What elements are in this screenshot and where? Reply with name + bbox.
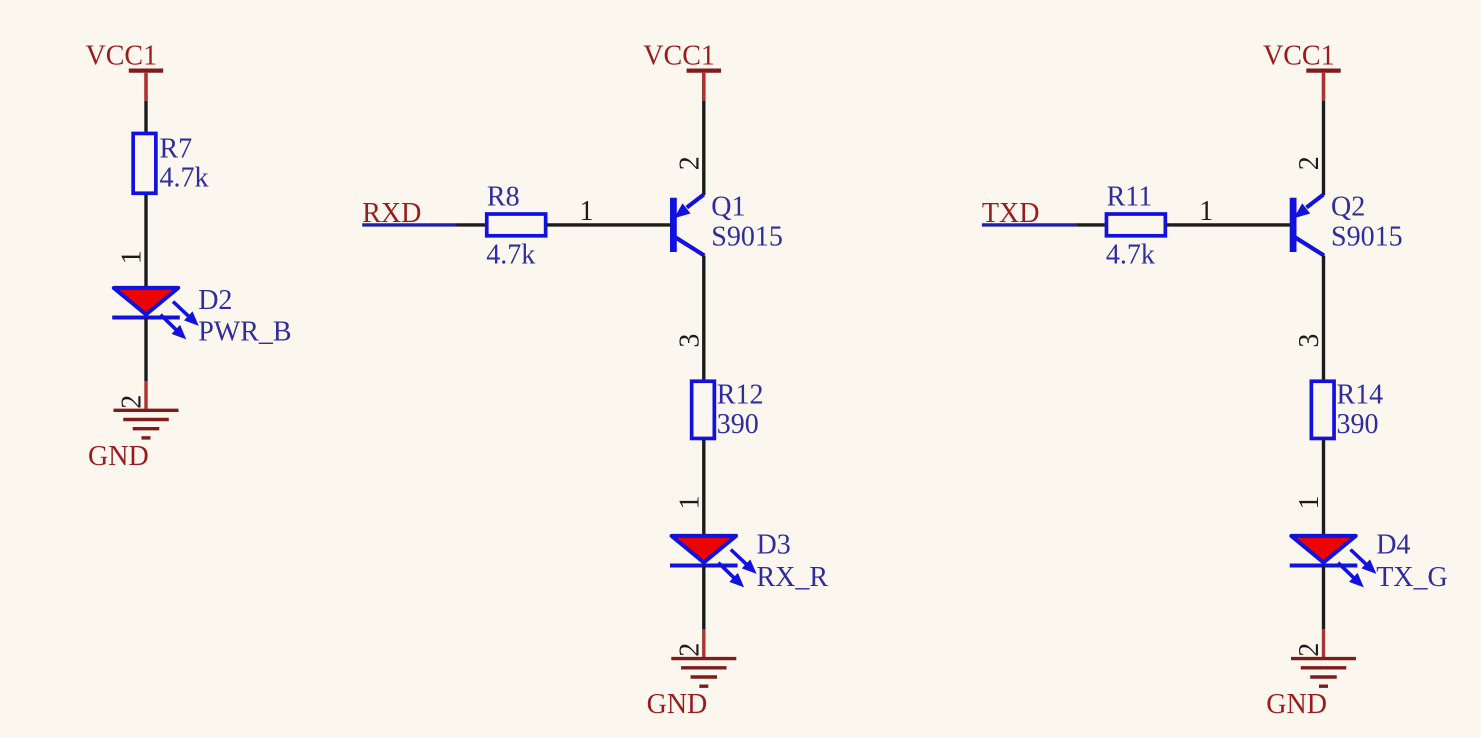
svg-text:R8: R8 (487, 181, 520, 212)
svg-text:1: 1 (1294, 496, 1325, 510)
svg-text:R7: R7 (160, 133, 193, 164)
svg-text:2: 2 (117, 395, 148, 409)
svg-text:S9015: S9015 (711, 221, 783, 252)
svg-text:D4: D4 (1376, 530, 1410, 561)
svg-text:4.7k: 4.7k (160, 163, 209, 194)
svg-text:RX_R: RX_R (757, 562, 829, 593)
svg-text:3: 3 (675, 334, 706, 348)
svg-text:GND: GND (647, 689, 708, 720)
svg-text:VCC1: VCC1 (86, 40, 158, 71)
svg-text:R11: R11 (1107, 181, 1153, 212)
svg-text:D2: D2 (198, 285, 232, 316)
svg-text:1: 1 (675, 496, 706, 510)
svg-text:2: 2 (1294, 643, 1325, 657)
svg-text:GND: GND (88, 441, 149, 472)
svg-text:3: 3 (1294, 334, 1325, 348)
svg-text:VCC1: VCC1 (643, 40, 715, 71)
svg-text:2: 2 (1294, 156, 1325, 170)
svg-text:Q2: Q2 (1331, 192, 1365, 223)
svg-text:390: 390 (1337, 409, 1379, 440)
svg-text:2: 2 (675, 156, 706, 170)
svg-text:D3: D3 (757, 530, 791, 561)
svg-text:1: 1 (1199, 196, 1213, 227)
svg-text:4.7k: 4.7k (486, 240, 535, 271)
svg-text:GND: GND (1266, 689, 1327, 720)
svg-text:2: 2 (675, 643, 706, 657)
svg-text:1: 1 (117, 250, 148, 264)
svg-text:R12: R12 (717, 379, 764, 410)
svg-text:Q1: Q1 (711, 192, 745, 223)
svg-text:PWR_B: PWR_B (198, 316, 291, 347)
svg-text:390: 390 (717, 409, 759, 440)
svg-text:TX_G: TX_G (1376, 562, 1448, 593)
svg-text:R14: R14 (1337, 379, 1384, 410)
svg-text:S9015: S9015 (1331, 221, 1403, 252)
svg-text:4.7k: 4.7k (1106, 240, 1155, 271)
svg-text:VCC1: VCC1 (1263, 40, 1335, 71)
svg-text:1: 1 (580, 196, 594, 227)
